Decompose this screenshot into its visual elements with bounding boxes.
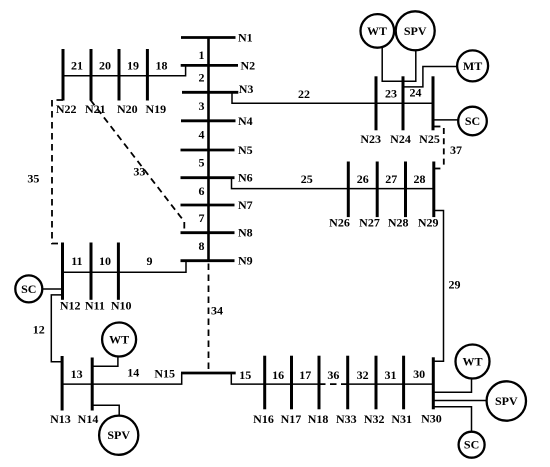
- bus bar N11: [90, 243, 93, 300]
- svg-text:N13: N13: [50, 412, 71, 426]
- generator SC at N25: [458, 107, 487, 136]
- svg-text:N9: N9: [238, 254, 253, 268]
- bus bar N16: [263, 356, 266, 410]
- svg-text:19: 19: [127, 59, 139, 73]
- bus bar N33: [346, 356, 349, 410]
- bus bar N31: [402, 356, 405, 410]
- svg-text:16: 16: [272, 368, 284, 382]
- svg-text:22: 22: [298, 87, 310, 101]
- svg-text:N19: N19: [145, 102, 166, 116]
- generator WT at N14: [102, 323, 136, 357]
- svg-text:N20: N20: [117, 102, 138, 116]
- svg-text:N33: N33: [336, 412, 357, 426]
- svg-text:N21: N21: [85, 102, 106, 116]
- svg-text:N18: N18: [308, 412, 329, 426]
- svg-text:MT: MT: [463, 59, 482, 73]
- wire SPV to N14 bus: [92, 405, 119, 416]
- generator MT: [457, 50, 488, 81]
- svg-text:N16: N16: [253, 412, 274, 426]
- bus bar N29: [432, 162, 435, 218]
- svg-text:5: 5: [199, 156, 205, 170]
- wire branches 18-21 to N2: [63, 65, 186, 75]
- bus bar N26: [347, 162, 350, 218]
- bus bar N9: [181, 259, 235, 262]
- wire branch 9 N9 to N12: [63, 261, 187, 273]
- svg-text:29: 29: [449, 278, 461, 292]
- svg-text:N27: N27: [359, 215, 380, 229]
- bus bar N23: [375, 76, 378, 130]
- bus bar N18: [318, 356, 321, 410]
- generator WT at N30: [456, 345, 490, 379]
- wire branch 22 N3 to N25: [232, 92, 433, 103]
- bus bar N2: [181, 64, 238, 67]
- wire branch 12 N12 to N13: [51, 295, 62, 362]
- bus bar N21: [90, 49, 93, 101]
- svg-text:N15: N15: [154, 366, 175, 380]
- svg-text:23: 23: [385, 87, 397, 101]
- wire branch 25 N6 to N29: [232, 178, 434, 189]
- svg-text:1: 1: [199, 48, 205, 62]
- svg-text:10: 10: [99, 254, 111, 268]
- svg-text:N4: N4: [238, 114, 253, 128]
- wire branches 13-14 N13 to N15: [62, 373, 182, 384]
- bus bar N19: [146, 49, 149, 101]
- wire SC to N12 bus: [42, 288, 62, 290]
- svg-text:36: 36: [327, 368, 339, 382]
- wire tie switch 37 (dashed) N25 to N29: [434, 126, 443, 128]
- wire tie switch 35 (dashed) N22 to N12: [52, 100, 63, 244]
- wire branch 29 N29 to N30: [433, 211, 443, 362]
- generator SPV at N24: [396, 11, 435, 50]
- svg-text:N28: N28: [388, 215, 409, 229]
- svg-text:SC: SC: [465, 114, 480, 128]
- bus bar N8: [181, 231, 235, 234]
- wire main feeder N1-N9: [207, 38, 210, 261]
- bus bar N15 (horizontal): [181, 372, 236, 375]
- svg-text:2: 2: [199, 70, 205, 84]
- wire SC to N30 bus: [433, 407, 471, 432]
- generator WT at N23: [361, 14, 395, 48]
- bus bar N14: [91, 358, 94, 411]
- bus bar N1: [181, 36, 236, 39]
- svg-text:37: 37: [450, 143, 462, 157]
- svg-text:9: 9: [147, 254, 153, 268]
- svg-text:N2: N2: [241, 58, 256, 72]
- svg-text:WT: WT: [367, 24, 387, 38]
- svg-text:N17: N17: [281, 412, 302, 426]
- svg-text:N24: N24: [390, 132, 411, 146]
- bus bar N28: [404, 162, 407, 218]
- svg-text:14: 14: [127, 366, 139, 380]
- wire SC to N25 bus: [434, 119, 458, 121]
- bus bar N20: [118, 49, 121, 101]
- svg-text:31: 31: [385, 368, 397, 382]
- svg-text:25: 25: [301, 172, 313, 186]
- generator SC at N12: [15, 275, 42, 302]
- svg-text:N25: N25: [419, 132, 440, 146]
- svg-text:N30: N30: [421, 411, 442, 425]
- bus bar N13: [61, 356, 64, 411]
- svg-text:SPV: SPV: [495, 394, 518, 408]
- generator SC at N30: [459, 432, 485, 458]
- bus bar N7: [181, 204, 235, 207]
- svg-text:SC: SC: [464, 438, 479, 452]
- wire branches 30-32 N33 to N30: [348, 383, 434, 385]
- svg-text:35: 35: [27, 171, 39, 185]
- wire tie switch 34 (dashed) N9 to N15: [208, 264, 210, 371]
- bus bar N17: [290, 356, 293, 410]
- bus bar N10: [117, 243, 120, 300]
- svg-text:WT: WT: [109, 333, 129, 347]
- svg-text:N10: N10: [111, 299, 132, 313]
- bus bar N25: [432, 76, 435, 130]
- svg-text:SPV: SPV: [107, 428, 130, 442]
- svg-text:32: 32: [357, 368, 369, 382]
- svg-text:N8: N8: [238, 226, 253, 240]
- bus bar N5: [181, 149, 235, 152]
- bus bar N4: [181, 119, 236, 122]
- svg-text:34: 34: [211, 303, 223, 317]
- bus bar N6: [181, 176, 235, 179]
- wire WT to N14 bus: [92, 356, 118, 366]
- svg-text:N23: N23: [360, 132, 381, 146]
- bus bar N22: [62, 49, 65, 101]
- wire MT to N24 bus: [404, 67, 457, 87]
- svg-text:20: 20: [99, 59, 111, 73]
- svg-text:N7: N7: [238, 198, 253, 212]
- svg-text:21: 21: [71, 59, 83, 73]
- svg-text:N26: N26: [329, 215, 350, 229]
- svg-text:6: 6: [199, 184, 205, 198]
- svg-text:30: 30: [413, 367, 425, 381]
- svg-text:18: 18: [156, 59, 168, 73]
- svg-text:17: 17: [299, 368, 311, 382]
- bus bar N12: [61, 243, 64, 300]
- svg-text:N14: N14: [78, 412, 99, 426]
- bus bar N32: [375, 356, 378, 410]
- svg-text:15: 15: [239, 368, 251, 382]
- svg-text:27: 27: [385, 172, 397, 186]
- wire tie switch 36 (dashed) N18 to N33: [319, 383, 348, 385]
- svg-text:13: 13: [71, 367, 83, 381]
- svg-text:N5: N5: [238, 143, 253, 157]
- bus bar N27: [376, 162, 379, 218]
- svg-text:N29: N29: [418, 215, 439, 229]
- generator SPV at N14: [99, 416, 138, 455]
- svg-text:N12: N12: [60, 299, 81, 313]
- svg-text:3: 3: [199, 99, 205, 113]
- wire tie switch 33 (dashed) N21 to N8: [91, 100, 185, 231]
- svg-text:N32: N32: [364, 412, 385, 426]
- wire WT to N24 bus: [382, 48, 416, 82]
- svg-text:N3: N3: [239, 82, 254, 96]
- svg-text:11: 11: [71, 254, 82, 268]
- svg-text:N11: N11: [85, 299, 105, 313]
- bus bar N24: [402, 76, 405, 130]
- svg-text:N31: N31: [391, 412, 412, 426]
- bus bar N3: [182, 91, 238, 94]
- svg-text:SC: SC: [21, 282, 36, 296]
- svg-text:8: 8: [199, 239, 205, 253]
- svg-text:N22: N22: [56, 102, 77, 116]
- svg-text:26: 26: [357, 172, 369, 186]
- wire SPV to N30 bus: [433, 400, 486, 402]
- bus bar N30: [432, 357, 435, 409]
- svg-text:SPV: SPV: [404, 24, 427, 38]
- svg-text:N6: N6: [238, 170, 253, 184]
- svg-text:33: 33: [133, 164, 145, 178]
- svg-text:WT: WT: [462, 355, 482, 369]
- svg-text:4: 4: [199, 128, 205, 142]
- wire branch 15 N15 to N16 row: [231, 373, 319, 384]
- svg-text:12: 12: [33, 323, 45, 337]
- wire WT to N30 bus: [433, 379, 471, 393]
- svg-text:7: 7: [199, 211, 205, 225]
- generator SPV at N30: [487, 381, 526, 420]
- svg-text:28: 28: [414, 172, 426, 186]
- svg-text:N1: N1: [238, 31, 253, 45]
